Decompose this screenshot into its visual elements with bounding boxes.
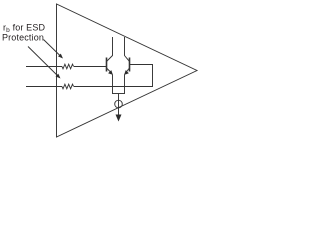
label: rb for ESD Protection — [2, 23, 45, 43]
transistor Q1 (left NPN of input pair) — [107, 37, 113, 94]
wire: emitter join bar — [112, 93, 125, 95]
svg-text:Protection: Protection — [2, 33, 44, 43]
ground / negative-supply arrow — [116, 115, 122, 122]
wire: upper input line (inverting input) — [26, 66, 106, 68]
resistor R1 (rb, upper ESD resistor) — [62, 64, 74, 69]
annotation arrow to resistor R1 — [44, 40, 64, 59]
wire: lower input line (non-inverting input) to right base loop — [26, 65, 153, 87]
wire: tail node down to current source — [118, 94, 120, 116]
op-amp U1 triangle body — [57, 4, 198, 137]
current source I1 (tail current source circle) — [115, 100, 123, 108]
transistor Q2 (right NPN of input pair, mirrored) — [124, 37, 129, 94]
annotation arrow to resistor R2 — [28, 47, 61, 79]
resistor R2 (rb, lower ESD resistor) — [62, 84, 74, 89]
